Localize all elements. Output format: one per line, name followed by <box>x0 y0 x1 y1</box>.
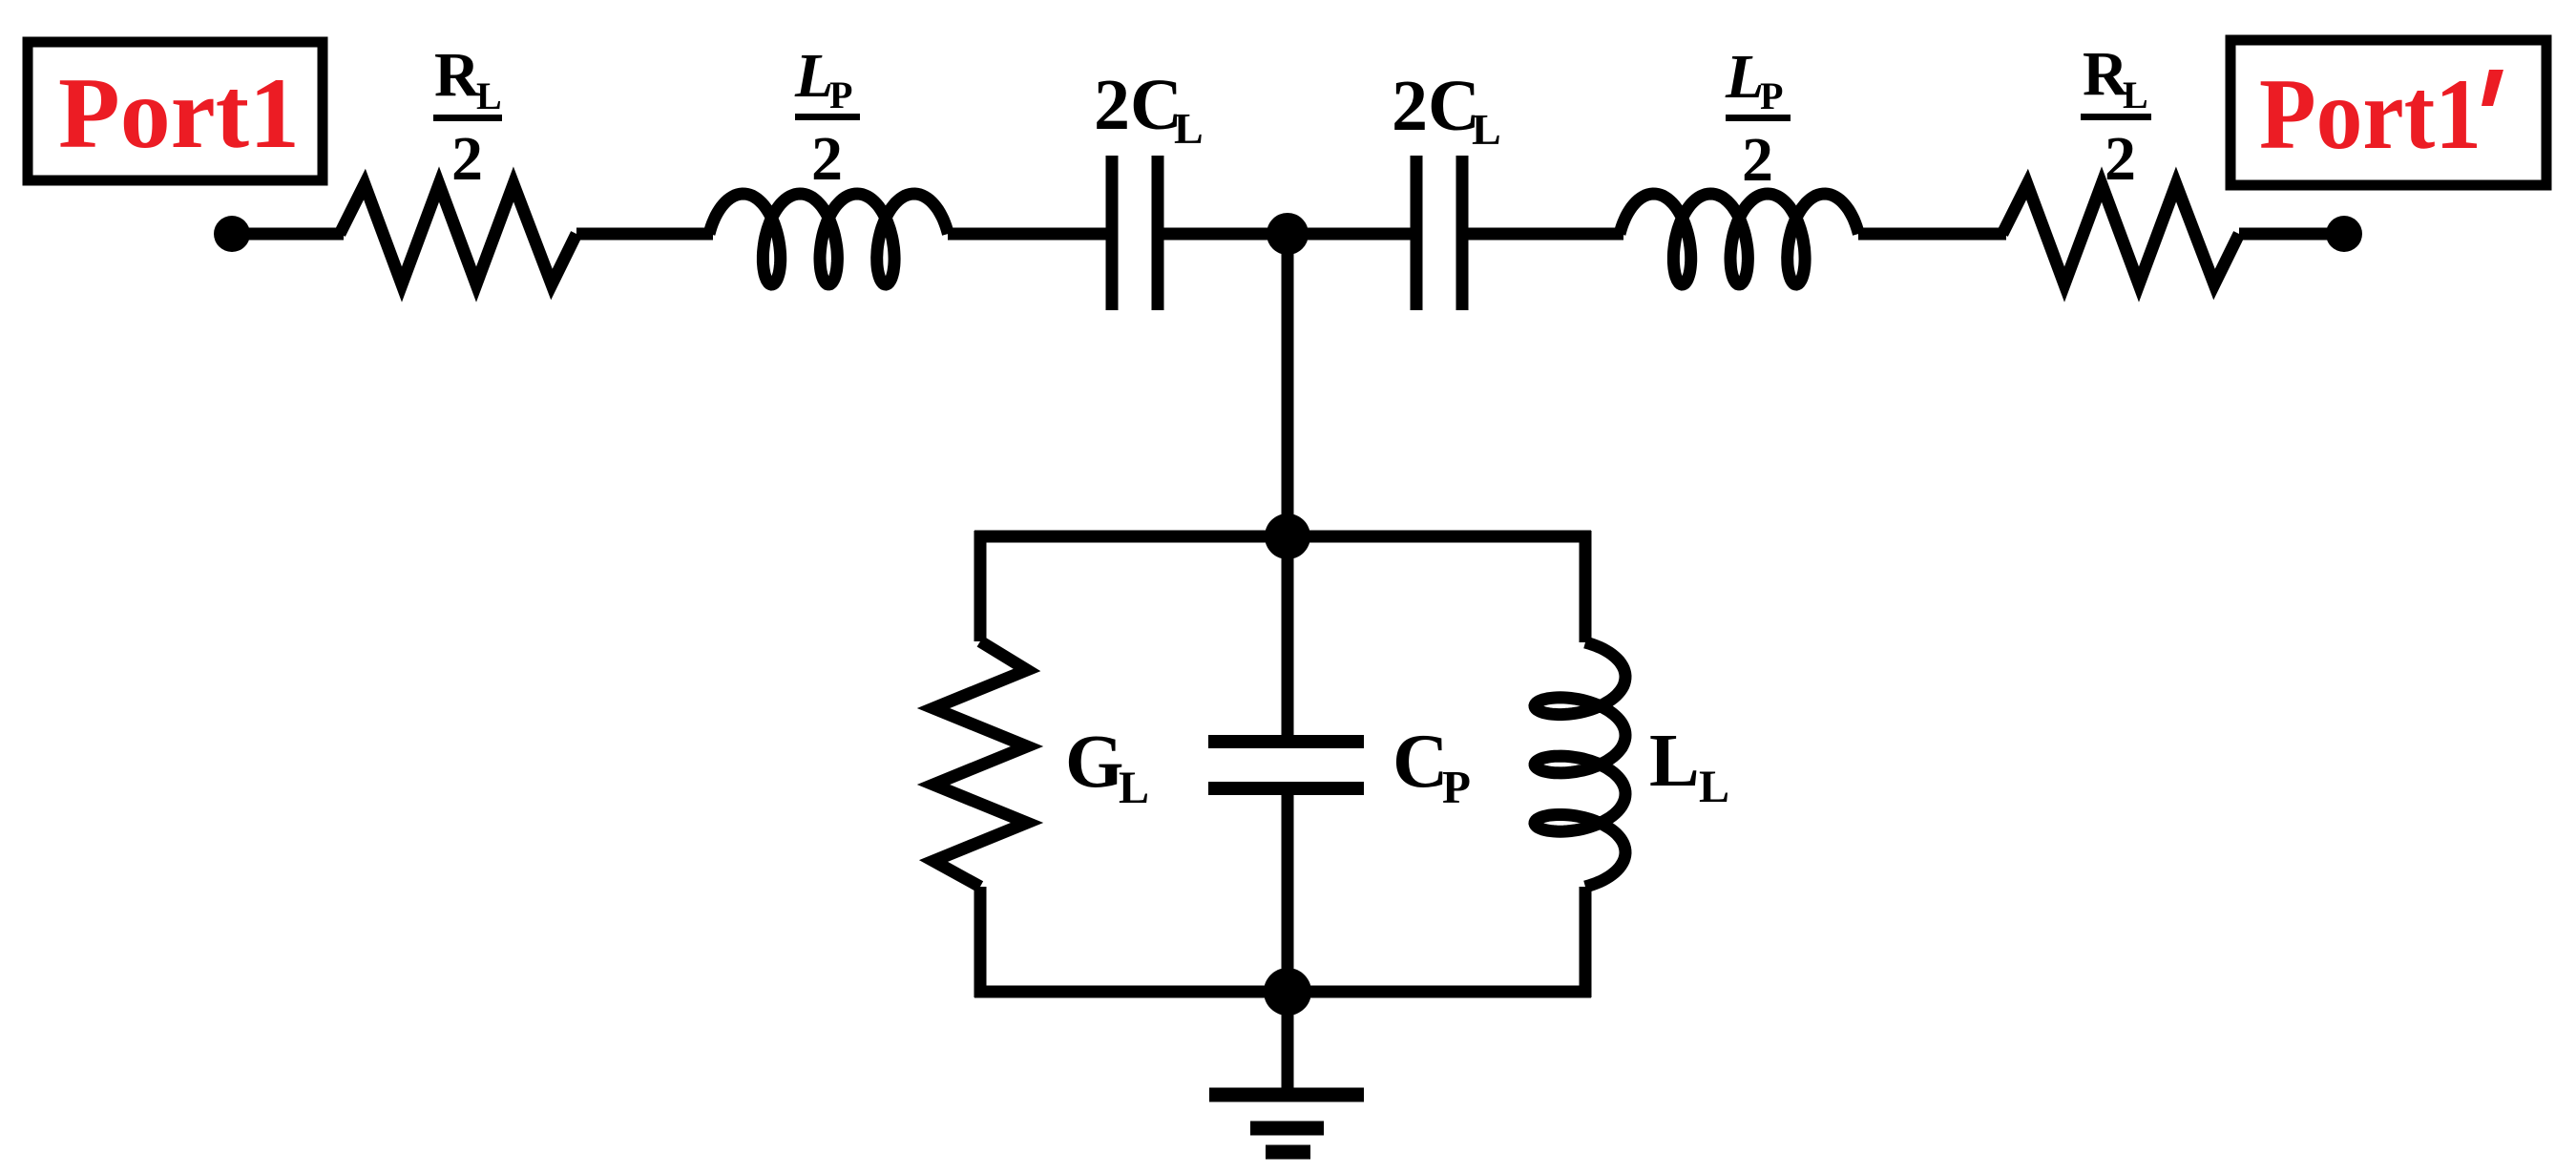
wire LP/2 right to RL/2 right <box>1858 228 2006 241</box>
svg-text:P: P <box>829 73 852 116</box>
resistor RL/2 left <box>340 184 576 284</box>
capacitor 2CL left plate 2 <box>1152 156 1164 310</box>
node dot tank top <box>1265 514 1310 559</box>
svg-text:L: L <box>1699 762 1729 812</box>
svg-text:Port1: Port1 <box>2259 58 2482 170</box>
svg-text:2C: 2C <box>1094 65 1183 145</box>
wire tank top right <box>1288 531 1591 642</box>
svg-text:G: G <box>1065 721 1123 804</box>
wire junction down to tank top <box>1282 234 1294 536</box>
svg-text:2: 2 <box>1742 125 1773 195</box>
wire CP top <box>1282 536 1294 736</box>
inductor LL <box>1535 642 1625 887</box>
svg-text:Port1: Port1 <box>58 57 300 169</box>
wire LP/2 to 2CL left <box>948 228 1106 241</box>
capacitor 2CL left plate 1 <box>1106 156 1119 310</box>
svg-text:L: L <box>2123 73 2148 116</box>
ground bar 3 <box>1266 1145 1310 1160</box>
capacitor 2CL right plate 1 <box>1411 156 1423 310</box>
label LP/2 left fraction bar <box>795 114 860 120</box>
svg-text:L: L <box>1472 105 1501 154</box>
resistor RL/2 right <box>2002 184 2239 284</box>
svg-text:R: R <box>434 40 481 110</box>
ground bar 2 <box>1250 1122 1324 1136</box>
wire tank bottom to ground <box>1282 992 1294 1095</box>
wire junction to 2CL right <box>1288 228 1411 241</box>
capacitor CP plate 2 <box>1208 782 1364 795</box>
wire 2CL right to LP/2 right <box>1468 228 1623 241</box>
svg-text:L: L <box>1725 42 1764 112</box>
inductor LP/2 left <box>709 194 948 284</box>
ground bar 1 <box>1209 1088 1364 1102</box>
wire CP bottom <box>1282 794 1294 992</box>
label RL/2 right fraction bar <box>2081 114 2151 120</box>
svg-text:L: L <box>1174 104 1204 153</box>
wire 2CL left to junction <box>1163 228 1288 241</box>
svg-text:L: L <box>476 74 502 117</box>
capacitor CP plate 1 <box>1208 735 1364 748</box>
wire RL/2 right to right terminal <box>2239 228 2344 241</box>
svg-text:L: L <box>1649 720 1700 803</box>
capacitor 2CL right plate 2 <box>1456 156 1469 310</box>
svg-text:2: 2 <box>811 124 843 194</box>
svg-text:P: P <box>1760 74 1783 117</box>
wire left terminal to RL/2 <box>232 228 344 241</box>
svg-text:2: 2 <box>451 124 483 194</box>
svg-text:2: 2 <box>2105 124 2136 194</box>
inductor LP/2 right <box>1620 194 1858 284</box>
node junction center <box>1267 213 1309 255</box>
resistor GL <box>933 641 1027 887</box>
label LP/2 right fraction bar <box>1726 115 1791 121</box>
node dot left terminal <box>214 216 250 252</box>
svg-text:P: P <box>1442 761 1471 813</box>
svg-text:C: C <box>1393 718 1449 804</box>
wire RL/2 to LP/2 <box>576 228 713 241</box>
wire LL to tank bottom <box>1288 887 1591 997</box>
node dot right terminal <box>2326 216 2362 252</box>
port box Port1prime <box>2230 40 2546 185</box>
label RL/2 left fraction bar <box>433 115 502 121</box>
svg-text:L: L <box>794 41 833 111</box>
node dot tank bottom <box>1264 968 1311 1016</box>
svg-text:2C: 2C <box>1392 66 1480 146</box>
wire tank top left <box>974 531 1288 641</box>
svg-text:L: L <box>1119 763 1149 813</box>
port box Port1 <box>28 42 323 180</box>
wire GL to tank bottom <box>974 887 1288 997</box>
